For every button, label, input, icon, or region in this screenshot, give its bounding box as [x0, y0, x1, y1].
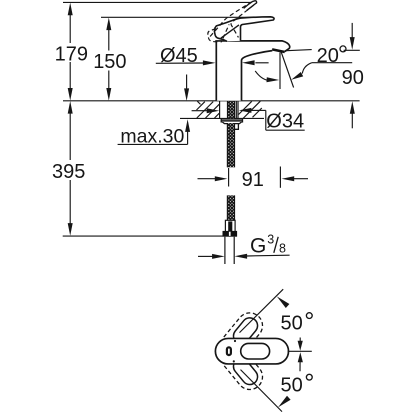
svg-text:179: 179	[55, 43, 88, 65]
flange mid line	[221, 119, 242, 121]
curved leader from 20deg underline	[302, 63, 311, 74]
dashed handle rotated +50 (upper)	[224, 308, 268, 354]
inner slot	[241, 343, 270, 359]
crimp sleeve inner slot	[228, 221, 232, 231]
ref line top (179)	[63, 1, 256, 3]
washer / flange under counter	[221, 119, 242, 129]
flexible hose braid lower segment	[227, 195, 234, 220]
body + spout white fill	[216, 41, 289, 101]
hatching left of hole	[197, 101, 200, 104]
arrowheads on diagonals	[277, 296, 290, 308]
svg-text:50: 50	[281, 313, 303, 335]
20deg slanted stream line	[281, 52, 294, 88]
centerline right	[288, 350, 312, 352]
dashed handle rotated -50 (lower)	[224, 349, 268, 395]
solid handle (loop lever)	[214, 17, 274, 42]
svg-text:50: 50	[281, 374, 303, 396]
flexible hose braid upper segment	[227, 123, 234, 167]
threaded shank braid through counter	[227, 101, 234, 119]
bottom ref line (395)	[63, 235, 223, 237]
svg-text:Ø45: Ø45	[160, 45, 198, 67]
svg-text:G: G	[250, 234, 266, 257]
svg-text:3: 3	[267, 233, 274, 247]
svg-text:8: 8	[279, 242, 286, 256]
small end cap mark	[227, 347, 231, 355]
counter bottom line	[180, 117, 264, 119]
centermark dot upper	[234, 340, 236, 342]
shank through counter	[220, 101, 238, 118]
solid pill outline	[215, 338, 288, 364]
loop inner edge	[221, 25, 239, 38]
hose nut	[223, 231, 238, 237]
small vertical arrows at centerline	[299, 338, 301, 343]
svg-text:Ø34: Ø34	[266, 111, 304, 133]
vertical ref at aerator	[279, 53, 281, 90]
degree symbol upper 50	[306, 313, 312, 319]
connection pipe G3/8	[224, 237, 226, 264]
svg-text:91: 91	[242, 169, 264, 191]
body + spout outline	[216, 41, 290, 101]
svg-text:395: 395	[52, 161, 85, 183]
svg-text:90: 90	[342, 67, 364, 89]
degree symbol of 20	[340, 46, 346, 52]
solid tip of raised handle	[243, 0, 258, 11]
crimp sleeve	[225, 220, 235, 232]
arc arrow left of vertical	[255, 71, 268, 80]
degree symbol lower 50	[306, 374, 312, 380]
hatching right of hole	[239, 101, 252, 114]
dashed grip of raised handle	[208, 29, 218, 42]
hose nut highlight	[229, 232, 231, 236]
counter top line	[63, 100, 360, 102]
diagonal 50deg lines	[240, 289, 284, 332]
centermark dot lower	[233, 360, 235, 362]
aerator	[272, 48, 285, 53]
svg-text:20: 20	[317, 45, 339, 67]
ref line 150	[101, 16, 254, 18]
svg-text:150: 150	[93, 51, 126, 73]
